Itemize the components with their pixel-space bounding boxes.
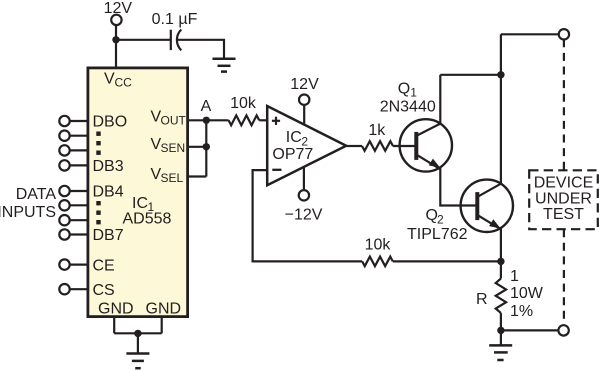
wire junction down to IC Vcc pin [115,40,117,67]
svg-text:IC: IC [286,129,302,146]
resistor R 10k input [229,95,260,125]
wire collector rail to junction [440,74,501,76]
terminal 12V supply [111,15,121,25]
terminal DB4 [59,186,69,196]
svg-text:A: A [201,98,212,115]
terminal op-amp V- [299,190,309,200]
device under test box [529,170,598,229]
svg-text:UNDER: UNDER [535,190,592,207]
resistor 10k feedback [362,237,393,267]
wire resistor to op-amp + input [259,119,267,121]
wire bottom node to DUT terminal [501,329,558,331]
resistor R 1 ohm 10W 1% [476,268,544,320]
label IC1 AD558 [123,195,172,227]
svg-text:OP77: OP77 [272,146,313,163]
wire DB6 stub [70,219,88,221]
transistor Q1 2N3440 [400,119,452,171]
svg-text:0.1 µF: 0.1 µF [152,11,198,28]
wire V- to op-amp [303,167,305,189]
terminal DUT top [559,29,569,39]
svg-text:TEST: TEST [543,206,584,223]
transistor Q2 TIPL762 [461,180,513,232]
junction Vsen [203,143,210,150]
svg-text:CS: CS [93,282,115,299]
wire DB4 stub [70,190,88,192]
label Q2 TIPL762 [407,207,468,243]
junction bottom node [497,327,504,334]
terminal CE [59,259,69,269]
svg-text:GND: GND [146,300,182,317]
label Q1 2N3440 [380,81,436,116]
svg-text:SEL: SEL [161,171,184,185]
junction GND bus [134,330,141,337]
terminal DB0 [59,116,69,126]
svg-text:1k: 1k [368,122,386,139]
wire GND bus [114,332,162,334]
ground (IC) [126,354,149,369]
wire DB3 stub [70,164,88,166]
svg-text:10k: 10k [365,237,392,254]
wire DB1 stub [70,135,88,137]
svg-text:CC: CC [115,76,133,90]
svg-text:OUT: OUT [161,114,187,128]
wire Vsel row [189,175,206,177]
wire V+ to op-amp [303,106,305,125]
svg-text:SEN: SEN [161,141,186,155]
pin label Vsen [151,136,186,155]
label DATA INPUTS [0,186,56,221]
terminal DB7 [59,229,69,239]
capacitor C1 0.1uF [152,11,198,50]
svg-text:INPUTS: INPUTS [0,204,56,221]
junction node A [203,117,210,124]
terminal DB1 [59,131,69,141]
svg-text:DBO: DBO [93,114,128,131]
pin label Vcc [104,71,132,90]
wire feedback node to resistor R [500,261,502,278]
wire DB7 stub [70,233,88,235]
svg-text:12V: 12V [290,76,319,93]
terminal CS [59,284,69,294]
pin label Vout [151,109,187,128]
svg-text:1: 1 [510,268,519,285]
svg-text:10k: 10k [230,95,257,112]
terminal DUT bottom [558,325,568,335]
junction collector rail [497,71,504,78]
wire junction right to capacitor [116,39,170,41]
wire R to bottom node [500,313,502,330]
label IC2 OP77 [272,129,313,163]
svg-text:DB3: DB3 [93,158,124,175]
terminal DB2 [59,145,69,155]
wire CE stub [70,264,88,266]
ground (capacitor) [213,59,236,72]
wire Vsen to node A column [189,146,206,148]
svg-text:DB4: DB4 [93,184,124,201]
wire Vout to resistor [189,119,229,121]
wire op-amp output [346,145,362,147]
terminal DB5 [59,200,69,210]
svg-text:DATA: DATA [16,186,57,203]
op-amp minus sign [272,169,281,171]
wire Q2 collector column [500,34,502,183]
terminal DB6 [59,215,69,225]
svg-text:R: R [476,291,488,308]
pin label Vsel [151,166,184,185]
wire GND right pin down [161,317,163,333]
terminal op-amp V+ [299,95,309,105]
IC U1 AD558 body [88,68,188,317]
svg-text:10W: 10W [510,285,544,302]
wire top to DUT terminal [501,33,559,35]
svg-text:Q: Q [398,81,410,98]
svg-text:2: 2 [437,213,444,227]
wire GND stem [137,333,139,353]
svg-text:1: 1 [410,86,417,100]
op-amp U2 OP77 triangle [267,106,346,185]
junction feedback node [497,258,504,265]
junction at 12V rail [112,36,119,43]
ground (R bottom) [489,345,512,360]
wire feedback right segment [393,260,501,262]
wire Q2 emitter down [500,228,502,262]
wire 12V terminal to junction [115,26,117,40]
wire GND left pin down [113,317,115,333]
wire dashed DUT bottom lead [563,229,565,325]
wire CS stub [70,288,88,290]
wire DB0 stub [70,120,88,122]
ellipsis dots DB0-DB3 [96,132,100,155]
svg-text:TIPL762: TIPL762 [407,226,468,243]
wire Q1 emitter down to Q2 base [440,167,477,205]
wire feedback left segment [253,170,363,261]
op-amp plus sign [272,117,280,125]
svg-text:DB7: DB7 [93,227,124,244]
svg-text:AD558: AD558 [123,210,172,227]
svg-text:DEVICE: DEVICE [534,175,594,192]
svg-text:GND: GND [98,300,134,317]
wire Q1 collector up [439,75,441,124]
svg-text:V: V [104,71,115,88]
wire dashed DUT top lead [563,39,565,170]
ellipsis dots DB4-DB7 [96,201,100,224]
wire 1k to Q1 base [393,145,415,147]
svg-text:−12V: −12V [285,206,323,223]
svg-text:1%: 1% [510,303,533,320]
wire capacitor to ground corner [178,40,224,59]
terminal DB3 [59,160,69,170]
wire DB2 stub [70,149,88,151]
wire ground stem bottom [500,330,502,345]
svg-text:2N3440: 2N3440 [380,99,436,116]
resistor 1k [362,122,393,151]
svg-text:CE: CE [93,257,115,274]
wire node A down to Vsel row [205,120,207,176]
wire DB5 stub [70,204,88,206]
